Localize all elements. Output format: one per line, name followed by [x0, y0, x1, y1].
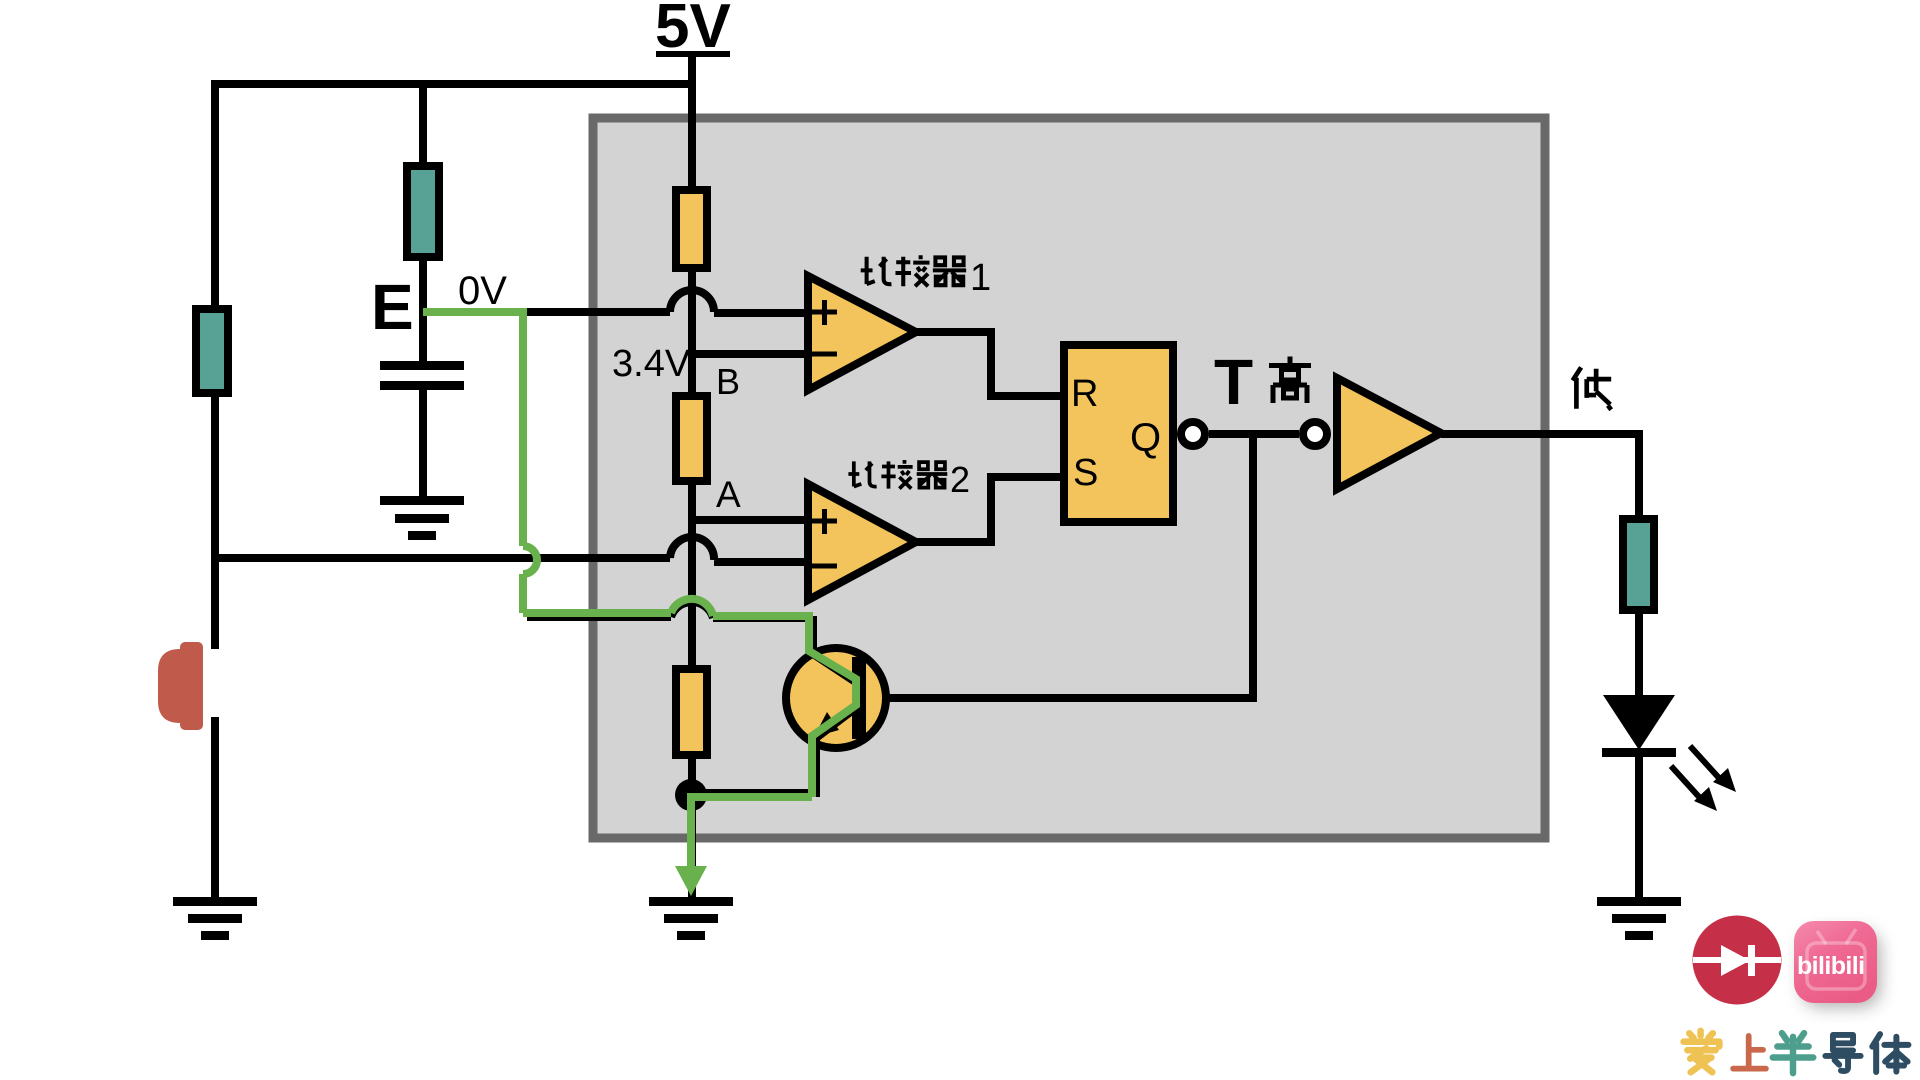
Q output inversion bubble: [1181, 422, 1205, 446]
wire: left branch to comparator2 - input, hop over divider chain: [215, 537, 808, 562]
junction node dot (discharge node): [675, 779, 707, 811]
svg-text:T: T: [1214, 346, 1253, 418]
svg-text:A: A: [716, 474, 741, 515]
RS flip-flop U3 body: [1064, 345, 1173, 522]
inverter input bubble: [1303, 422, 1327, 446]
LED D1 light arrow 2: [1671, 766, 1717, 811]
resistor R1 (left teal, on left branch): [196, 309, 228, 393]
green arrow head to ground: [675, 866, 707, 896]
label comparator1 (CJK drawn): [861, 255, 966, 286]
LED D1 triangle: [1603, 695, 1675, 750]
svg-text:S: S: [1073, 452, 1098, 494]
transistor Q1 emitter lead: [816, 707, 857, 797]
ground under divider chain: [649, 897, 733, 940]
ground under button: [173, 897, 257, 940]
wire: left vertical branch (to button top contact): [211, 80, 219, 649]
svg-text:bilibili: bilibili: [1797, 952, 1864, 980]
footer channel name CJK (colored): [1684, 1031, 1909, 1073]
5V rail underline: [656, 51, 730, 57]
capacitor C1 top plate: [380, 361, 464, 370]
svg-text:E: E: [371, 271, 414, 343]
resistor R3 (orange, divider top): [676, 190, 707, 268]
wire: top rail from left branch to 5V stem: [211, 80, 692, 88]
svg-text:B: B: [716, 361, 740, 402]
IC internals box (555 timer): [593, 118, 1545, 838]
wire: capacitor bottom plate to ground: [419, 390, 427, 497]
resistor R2 (teal, on E branch): [407, 166, 439, 257]
svg-text:3.4V: 3.4V: [612, 343, 691, 385]
wire: node A to comparator2 + input: [692, 516, 808, 524]
comparator U2 triangle: [808, 484, 916, 600]
resistor R6 (right teal, output): [1623, 519, 1654, 610]
bilibili logo: [1794, 921, 1881, 1008]
LED D1 cathode bar: [1602, 748, 1676, 757]
svg-text:0V: 0V: [458, 269, 507, 313]
wire: Q bubble to inverter bubble: [1209, 430, 1299, 438]
capacitor C1 bottom plate: [380, 381, 464, 390]
transistor Q1 base bar: [852, 657, 866, 739]
svg-text:2: 2: [950, 459, 970, 500]
wire: 5V stem and internal resistor-divider chain: [688, 57, 696, 795]
comparator U1 - pin label: [812, 352, 837, 357]
wire: LED cathode to ground: [1635, 750, 1643, 897]
wire: divider chain below discharge node to ground: [688, 795, 696, 897]
transistor Q1 collector lead: [813, 616, 857, 683]
comparator U2 + pin label: [812, 509, 837, 534]
wire: output resistor to LED anode: [1635, 614, 1643, 700]
inverter U4 triangle: [1337, 378, 1441, 489]
ground under LED: [1597, 897, 1681, 940]
label high (CJK): [1269, 357, 1311, 404]
wire: button bottom contact to ground: [211, 717, 219, 897]
svg-text:R: R: [1071, 373, 1098, 415]
resistor R4 (orange, divider middle): [676, 396, 707, 481]
ground under capacitor: [380, 496, 464, 540]
svg-text:1: 1: [970, 257, 991, 299]
wire: comparator2 output to S input: [916, 477, 1064, 542]
comparator U1 triangle: [808, 276, 916, 390]
transistor Q1 body circle: [786, 648, 886, 748]
wire: node E to comparator1 + input, hop over divider chain: [423, 290, 808, 313]
wire: 3.4V node B to comparator1 - input: [692, 350, 808, 358]
wire: emitter to discharge node: [694, 789, 814, 797]
wire: comparator1 output to R input: [916, 332, 1064, 396]
wire: inverter output to output resistor (low): [1441, 434, 1639, 519]
comparator U2 - pin label: [812, 564, 837, 569]
comparator U1 + pin label: [812, 300, 837, 325]
resistor R5 (orange, divider bottom): [676, 669, 707, 755]
wire: discharge path under green highlight: [527, 602, 813, 618]
wire: Q node down to transistor base: [866, 434, 1253, 698]
transistor Q1 emitter arrow: [814, 712, 839, 737]
label low (CJK): [1573, 367, 1612, 409]
push button SW1 cap: [158, 642, 203, 730]
wire: E branch from top rail to capacitor top plate: [419, 84, 427, 362]
label comparator2 (CJK drawn): [848, 460, 947, 489]
channel logo red circle with diode: [1693, 916, 1782, 1005]
LED D1 light arrow 1: [1690, 746, 1736, 792]
green discharge-current highlight path: [423, 312, 856, 868]
svg-text:Q: Q: [1130, 416, 1161, 460]
